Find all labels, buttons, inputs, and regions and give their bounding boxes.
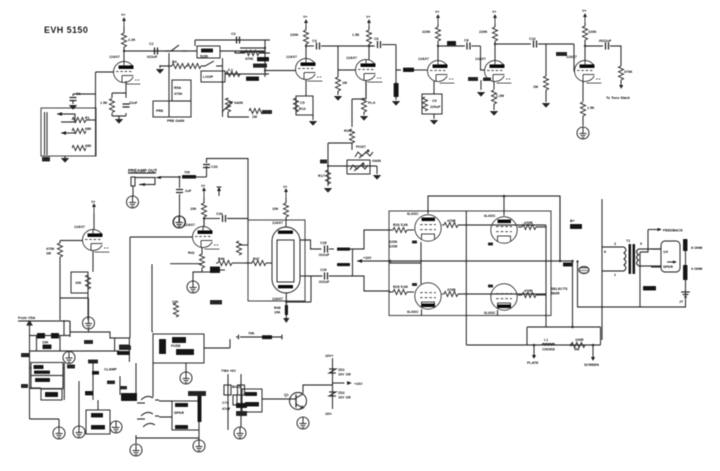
node	[570, 344, 573, 347]
wire long bus from FX	[130, 237, 152, 338]
svg-text:4 OHM: 4 OHM	[691, 267, 702, 271]
svg-text:6L6GC: 6L6GC	[484, 311, 496, 315]
node plate V1A	[123, 50, 125, 52]
resistor R28 screen	[518, 221, 546, 230]
ground	[173, 216, 185, 228]
filter box B	[31, 376, 63, 389]
mid rail wire	[305, 259, 422, 263]
wire	[64, 156, 66, 158]
svg-text:C3: C3	[231, 32, 236, 36]
ground	[180, 363, 192, 384]
svg-text:R13: R13	[299, 107, 306, 111]
wire	[303, 385, 333, 393]
left bus wire	[27, 321, 32, 419]
resistor R3	[72, 144, 92, 151]
resistor R8	[245, 50, 259, 61]
svg-text:C5: C5	[300, 101, 305, 105]
ground	[360, 116, 369, 121]
svg-text:C9: C9	[432, 99, 437, 103]
V+ supply	[303, 15, 308, 29]
cathode V2	[305, 80, 307, 96]
svg-text:R26 5.6K: R26 5.6K	[393, 223, 409, 227]
svg-text:470R: 470R	[447, 288, 456, 292]
capacitor C3b cathode	[122, 101, 138, 107]
svg-text:.022uF: .022uF	[318, 280, 330, 284]
ground	[430, 114, 439, 125]
resistor R23 grid leak	[392, 70, 401, 106]
svg-text:470R: 470R	[447, 219, 456, 223]
svg-text:SELECTS: SELECTS	[551, 287, 568, 291]
resistor R27 screen	[442, 219, 546, 228]
node	[305, 45, 307, 47]
switch S2	[201, 61, 222, 66]
svg-text:R29 5.6K: R29 5.6K	[393, 285, 409, 289]
zener ZD1	[329, 368, 351, 377]
svg-text:1.5K: 1.5K	[587, 106, 595, 110]
ground	[679, 292, 690, 304]
wire	[193, 272, 202, 281]
svg-text:C29: C29	[320, 268, 327, 272]
svg-text:470R: 470R	[524, 289, 533, 293]
ground	[477, 92, 486, 97]
tube V4 12AX7	[418, 57, 455, 83]
node	[576, 260, 578, 262]
svg-text:CHOKE: CHOKE	[542, 348, 556, 352]
ground	[297, 417, 309, 429]
gain network cluster	[146, 32, 272, 123]
resistor R17	[318, 170, 331, 184]
diode row wires	[30, 336, 71, 352]
diode blob	[236, 403, 247, 416]
tube V9 PI capsule	[272, 221, 300, 301]
capacitor C20	[585, 39, 612, 50]
wire plate V4	[437, 24, 439, 61]
wire	[235, 51, 270, 53]
svg-text:V+: V+	[283, 185, 288, 189]
svg-text:ZD1: ZD1	[338, 368, 345, 372]
svg-text:R17: R17	[318, 174, 325, 178]
wire plate V1A	[123, 27, 125, 62]
svg-text:.022uF: .022uF	[318, 253, 330, 257]
svg-text:16V 1W: 16V 1W	[338, 396, 351, 400]
label C50	[119, 346, 131, 351]
node	[533, 344, 536, 347]
label blob	[483, 78, 491, 82]
tube V6 12AX7	[566, 55, 602, 83]
label blob2	[119, 345, 129, 349]
input jack J1	[41, 108, 96, 156]
wire plate V6	[584, 23, 586, 61]
svg-text:220K: 220K	[290, 33, 299, 37]
tail resistor R48 PI	[274, 276, 311, 323]
box C	[41, 389, 62, 400]
wire	[300, 275, 307, 277]
resistor R7 plate	[121, 33, 136, 47]
svg-text:70K: 70K	[248, 332, 255, 336]
svg-text:1.5K: 1.5K	[352, 33, 360, 37]
svg-text:2.2K: 2.2K	[128, 38, 136, 42]
wire screen rail	[545, 225, 547, 327]
svg-text:PRE GAIN: PRE GAIN	[167, 119, 185, 123]
resistor R58	[238, 385, 245, 395]
svg-text:PLG: PLG	[368, 101, 376, 105]
feedback label	[648, 228, 683, 233]
svg-text:C33: C33	[211, 165, 218, 169]
svg-text:10K: 10K	[272, 207, 279, 211]
wire	[60, 293, 88, 320]
label JT	[42, 157, 50, 162]
svg-text:B+: B+	[570, 219, 575, 223]
capacitor C3	[231, 32, 240, 44]
svg-text:220K: 220K	[588, 30, 597, 34]
ground	[130, 444, 142, 456]
wire	[136, 435, 199, 443]
svg-text:+16V: +16V	[363, 256, 372, 260]
svg-text:220K: 220K	[422, 30, 431, 34]
resistor R14 plate	[352, 30, 372, 44]
resistor R5	[187, 63, 201, 68]
tube V13 6L6GC	[484, 284, 517, 315]
svg-text:GAIN: GAIN	[372, 159, 381, 163]
svg-text:16V-: 16V-	[325, 412, 333, 416]
svg-text:700: 700	[184, 171, 190, 175]
svg-text:12AX7: 12AX7	[184, 223, 195, 227]
resistor R21 grid leak V6	[533, 44, 549, 102]
tube V11 6L6GC	[484, 214, 517, 246]
ground	[110, 421, 122, 433]
box lower	[153, 101, 191, 123]
resistor R56 70K	[236, 332, 282, 340]
wire	[95, 72, 97, 156]
svg-text:12AX7: 12AX7	[346, 56, 357, 60]
tube V2 12AX7	[286, 55, 323, 81]
svg-text:C6: C6	[374, 37, 379, 41]
wire plate V2	[305, 26, 307, 59]
svg-text:EVH 5150: EVH 5150	[44, 25, 88, 35]
chassis ground	[579, 267, 589, 274]
ground	[61, 158, 70, 163]
svg-text:5W: 5W	[574, 348, 580, 352]
svg-text:T2: T2	[626, 239, 630, 243]
svg-text:6L6GC: 6L6GC	[407, 310, 419, 314]
wire	[204, 339, 230, 348]
bottom feed wires	[466, 327, 600, 345]
svg-text:8 OHM: 8 OHM	[691, 246, 702, 250]
cathode V4 with box	[433, 81, 435, 94]
svg-text:V+: V+	[303, 15, 308, 19]
svg-text:LOOP: LOOP	[203, 75, 214, 79]
resistor R18 plate	[422, 27, 441, 41]
resistor R62	[580, 102, 595, 126]
svg-text:12AX7: 12AX7	[109, 55, 120, 59]
tube V10 6L6GC	[407, 212, 441, 244]
wire	[73, 93, 96, 95]
svg-text:.022uF: .022uF	[146, 55, 158, 59]
ground	[334, 96, 343, 101]
svg-text:V+: V+	[492, 10, 497, 14]
svg-text:C10: C10	[529, 37, 536, 41]
resistor R44 plate PI	[272, 198, 289, 227]
svg-text:+16V: +16V	[354, 382, 363, 386]
speaker relay box	[172, 391, 206, 430]
switch S1 crunch	[165, 45, 187, 51]
svg-text:5150: 5150	[200, 55, 208, 59]
ground	[53, 427, 65, 439]
label blob	[556, 52, 567, 56]
svg-text:10K: 10K	[190, 207, 197, 211]
to tone stack arrow	[606, 85, 630, 100]
svg-text:C28: C28	[320, 241, 327, 245]
wire plate V8	[203, 217, 205, 227]
ground	[309, 115, 318, 126]
main wire	[30, 350, 120, 352]
V+ supply V7	[201, 184, 206, 197]
phase inverter box	[248, 220, 305, 301]
cathode box V7a	[71, 272, 91, 293]
resistor R26 grid	[389, 223, 414, 249]
svg-text:12AX7: 12AX7	[272, 221, 283, 225]
svg-text:68K: 68K	[85, 144, 92, 148]
label	[563, 263, 572, 267]
diode CR2	[202, 267, 225, 274]
wire VSA riser	[64, 320, 70, 336]
B+ rail right	[560, 196, 602, 340]
svg-text:V+: V+	[435, 10, 440, 14]
svg-text:SCREEN: SCREEN	[584, 363, 599, 367]
label R820	[210, 300, 222, 305]
svg-text:TW4 +6V: TW4 +6V	[221, 369, 237, 373]
wire grid V8	[130, 236, 193, 238]
vertical wire	[222, 58, 224, 117]
cathode box V2	[293, 96, 313, 115]
resistor R43 22K	[170, 264, 202, 317]
svg-text:12AX7: 12AX7	[475, 57, 486, 61]
diode D2	[51, 333, 59, 339]
svg-text:C2: C2	[149, 42, 154, 46]
svg-text:470K: 470K	[245, 57, 254, 61]
svg-text:22uF: 22uF	[129, 101, 138, 105]
svg-text:R5A: R5A	[174, 86, 182, 90]
wire	[196, 176, 207, 178]
svg-text:R46: R46	[218, 257, 225, 261]
capacitor C10 coupling	[495, 37, 574, 48]
svg-text:R1: R1	[85, 116, 90, 120]
wire	[152, 331, 153, 333]
resistor R45	[236, 241, 248, 255]
resistor R29 grid lower	[389, 285, 414, 295]
wire	[573, 44, 576, 71]
svg-text:470K: 470K	[174, 92, 183, 96]
wire	[610, 46, 621, 66]
dark blobs	[107, 351, 130, 389]
svg-text:PREAMP OUT: PREAMP OUT	[128, 168, 158, 173]
cathode V3	[365, 81, 367, 100]
top B+ wire	[428, 196, 560, 259]
capacitor C4 coupling	[306, 39, 373, 50]
zener stack	[325, 354, 363, 416]
ground	[174, 216, 186, 228]
wire plate V3	[368, 26, 370, 60]
svg-text:560R: 560R	[551, 292, 560, 296]
svg-text:1.5K: 1.5K	[100, 101, 108, 105]
svg-text:0.1: 0.1	[228, 68, 233, 72]
label blob	[468, 77, 478, 81]
B+ label	[570, 219, 582, 229]
svg-text:R42: R42	[188, 251, 195, 255]
box wire upper	[70, 332, 129, 362]
svg-text:220K: 220K	[479, 30, 488, 34]
label C53	[21, 384, 28, 388]
diode D1	[37, 333, 45, 339]
resistor R10	[249, 108, 263, 119]
wire mains risers	[30, 363, 154, 427]
svg-text:2.2M: 2.2M	[496, 94, 504, 98]
V+ supply	[91, 200, 96, 213]
wire	[225, 73, 269, 75]
svg-text:100R: 100R	[575, 338, 584, 342]
svg-text:16V 1W: 16V 1W	[338, 373, 351, 377]
V+ supply	[366, 15, 371, 29]
resistor R16	[361, 81, 375, 116]
node	[178, 176, 180, 178]
resistor R4	[172, 60, 186, 69]
cathode V6	[582, 82, 584, 102]
capacitor C8 coupling	[438, 39, 481, 50]
cathode V5	[480, 80, 482, 90]
svg-text:12AX7: 12AX7	[286, 55, 297, 59]
wire to V2 grid	[240, 40, 296, 81]
svg-text:1M: 1M	[46, 252, 51, 256]
node	[571, 260, 574, 263]
svg-text:12AX7: 12AX7	[74, 225, 85, 229]
ground	[156, 65, 165, 74]
wire	[352, 99, 366, 127]
tube V12 6L6GC	[407, 283, 441, 314]
wire	[228, 98, 270, 117]
ground	[373, 166, 382, 180]
ground	[127, 196, 139, 208]
cathode wire V1A	[112, 81, 126, 119]
resistor R20	[491, 82, 504, 111]
ground	[115, 119, 124, 124]
resistor R15	[344, 129, 355, 143]
cathode V7a	[92, 251, 94, 273]
resistor R19 plate	[479, 27, 498, 41]
loop box	[201, 71, 225, 82]
svg-text:POST: POST	[356, 145, 367, 149]
wire	[195, 40, 270, 51]
ground	[490, 111, 499, 116]
capacitor C2	[146, 42, 158, 59]
label MEC	[67, 365, 75, 369]
wire	[244, 262, 253, 264]
ground	[187, 281, 199, 293]
svg-text:6L6GC: 6L6GC	[407, 212, 419, 216]
label selects	[551, 287, 568, 296]
svg-text:1/4: 1/4	[663, 250, 668, 254]
tube V1A 12AX7	[114, 62, 141, 85]
svg-text:10K: 10K	[75, 281, 82, 285]
wire plate V5	[494, 24, 496, 61]
wire	[396, 45, 401, 70]
capacitor C1	[69, 92, 80, 104]
node	[559, 260, 562, 263]
svg-text:470K: 470K	[46, 247, 55, 251]
wire	[247, 219, 249, 246]
resistor R42	[188, 251, 205, 272]
tube V7 12AX7 lower left	[74, 225, 110, 252]
resistor R55	[571, 338, 585, 352]
power amp box	[389, 211, 551, 316]
svg-text:R47: R47	[253, 257, 260, 261]
svg-text:12AX7: 12AX7	[418, 57, 429, 61]
svg-text:220uF: 220uF	[430, 105, 441, 109]
capacitor C32	[176, 177, 192, 216]
choke L1	[542, 338, 556, 352]
inner vertical	[421, 211, 466, 345]
wire	[69, 321, 71, 337]
wire	[685, 251, 687, 290]
gain pot	[222, 98, 243, 112]
wire	[194, 40, 196, 46]
node	[494, 43, 496, 45]
svg-text:C34: C34	[216, 212, 223, 216]
svg-text:6L6GC: 6L6GC	[484, 214, 496, 218]
node	[584, 45, 586, 47]
svg-text:10K: 10K	[42, 341, 49, 345]
label blob	[85, 391, 93, 395]
wire plates	[422, 211, 505, 316]
resistor R50	[329, 248, 353, 251]
wire	[300, 240, 322, 249]
wire grid V7a	[60, 240, 83, 242]
post gain pots	[318, 143, 381, 193]
label blob	[262, 110, 272, 114]
capacitor C6 coupling	[369, 37, 396, 48]
filter box A	[31, 363, 63, 376]
power switch S3	[121, 393, 159, 427]
svg-text:.1uF: .1uF	[184, 189, 192, 193]
preamp out jack	[131, 176, 179, 196]
svg-text:V+: V+	[201, 184, 206, 188]
V+ supply	[121, 13, 126, 27]
svg-text:PRE: PRE	[156, 109, 164, 113]
speaker jack box	[651, 239, 702, 280]
resistor R9	[226, 68, 240, 77]
svg-text:R4: R4	[172, 60, 177, 64]
IEC fuse box	[153, 334, 204, 363]
resistor R68	[618, 66, 633, 85]
svg-text:V+: V+	[366, 15, 371, 19]
svg-text:.0022uF: .0022uF	[598, 39, 612, 43]
wire	[159, 401, 199, 440]
svg-text:V+: V+	[582, 9, 587, 13]
node	[571, 326, 574, 329]
svg-text:220K: 220K	[389, 240, 398, 244]
svg-text:BIAS: BIAS	[232, 385, 241, 389]
From VSA	[18, 316, 70, 321]
resistor R51 10K	[42, 341, 52, 350]
cathode network V4	[422, 94, 442, 114]
feedback return wire	[578, 262, 686, 308]
label blob	[84, 340, 93, 344]
svg-text:C74: C74	[222, 401, 229, 405]
resistor R31	[182, 171, 196, 179]
bias rail	[357, 256, 573, 263]
ground	[324, 188, 333, 193]
wire	[481, 46, 485, 70]
ground	[193, 440, 205, 452]
